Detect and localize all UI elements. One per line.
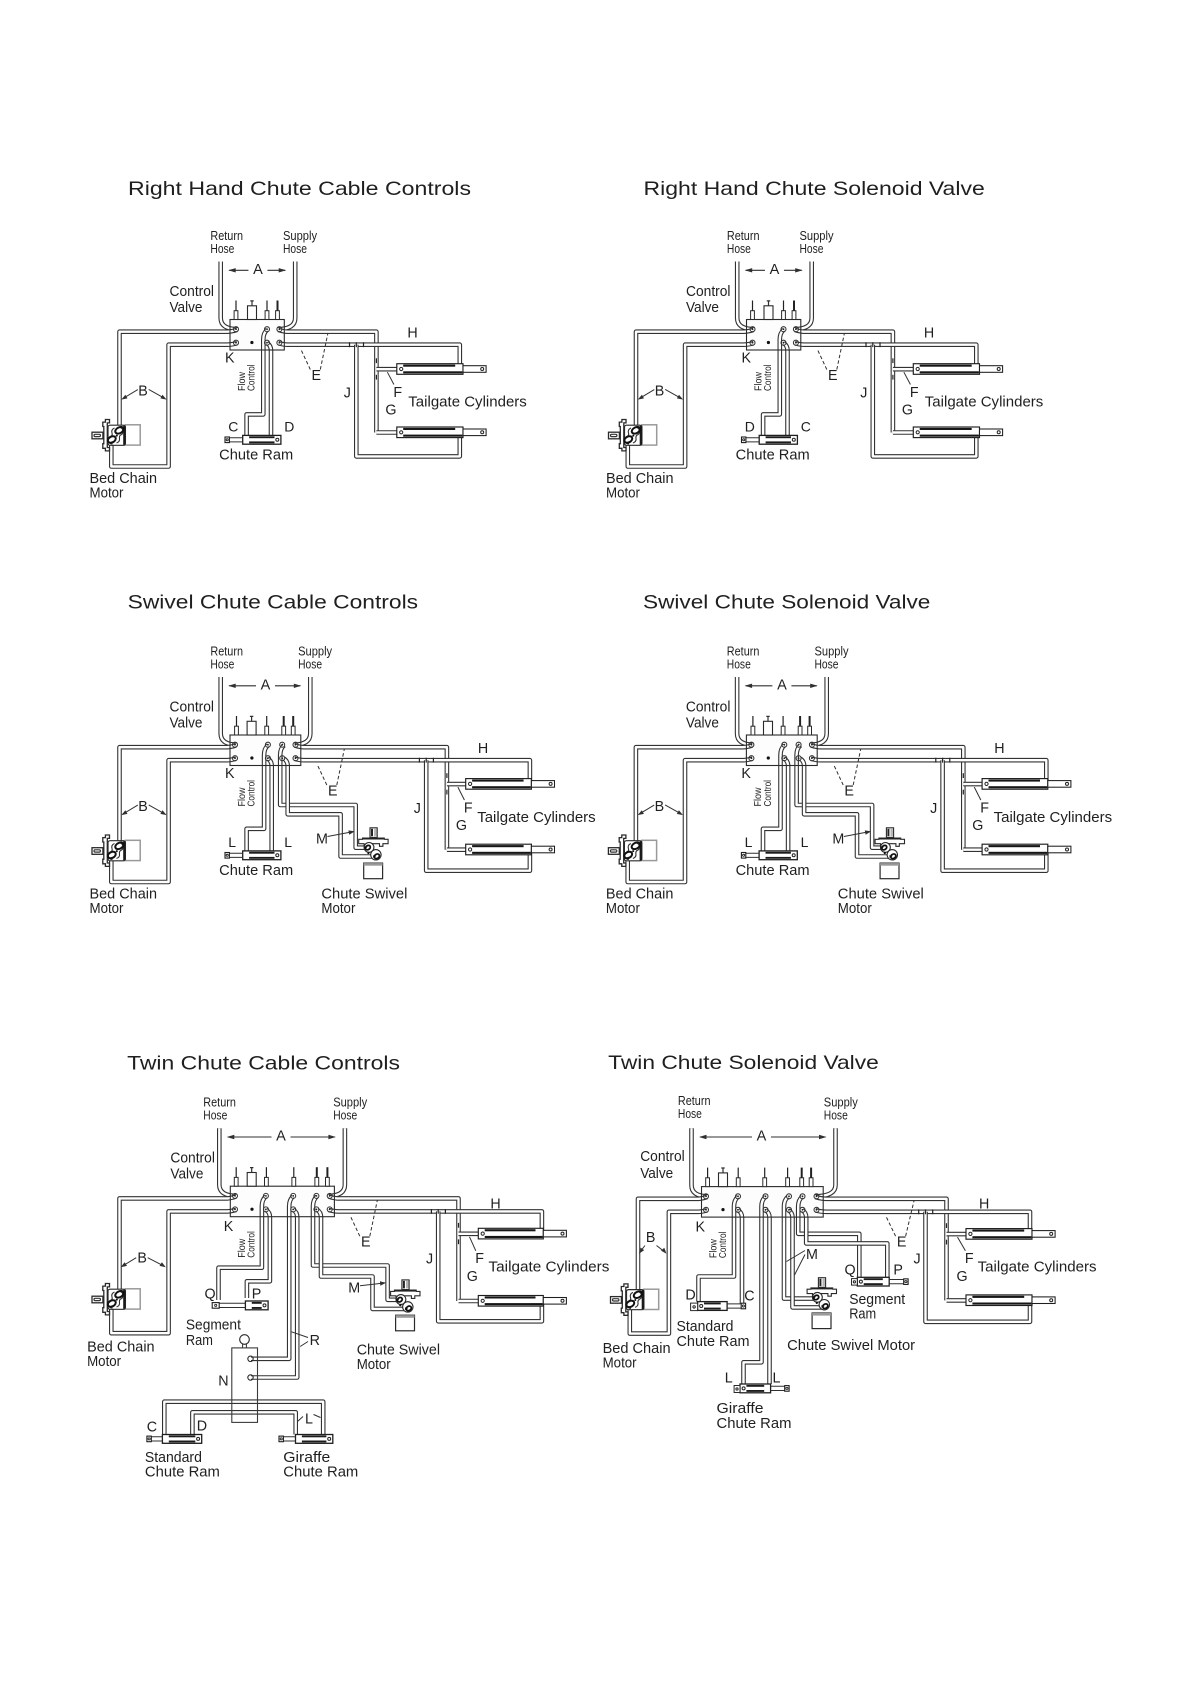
svg-text:J: J [930, 801, 937, 817]
supply hose [815, 1128, 836, 1196]
svg-text:C: C [147, 1419, 157, 1435]
hose M to swivel motor top [280, 745, 368, 848]
hose E to tailgate cylinder left ports [295, 745, 447, 849]
tailgate cylinder lower [982, 844, 1071, 855]
svg-text:L: L [284, 834, 292, 850]
hose to chute ram right port [268, 759, 272, 851]
svg-text:M: M [316, 832, 328, 848]
chute ram [741, 851, 797, 860]
svg-text:Tailgate Cylinders: Tailgate Cylinders [477, 809, 596, 826]
hose to giraffe ram left [744, 1197, 766, 1384]
svg-text:Tailgate Cylinders: Tailgate Cylinders [408, 394, 527, 411]
stub to G port [459, 1299, 479, 1304]
tailgate cylinder lower [913, 427, 1002, 438]
svg-text:A: A [276, 1129, 286, 1145]
svg-text:Motor: Motor [606, 486, 640, 502]
tailgate cylinder upper [466, 779, 555, 790]
ticks on F/G hose [375, 358, 377, 363]
hose J loop [926, 1212, 1031, 1322]
svg-text:Valve: Valve [170, 716, 203, 732]
svg-text:P: P [893, 1263, 903, 1279]
hose junction block to standard ram C [164, 1402, 323, 1435]
supply hose [277, 262, 295, 330]
hose to segment ram P [802, 1210, 887, 1277]
svg-text:G: G [902, 403, 913, 419]
chute ram [225, 435, 281, 444]
hose B return to bed chain motor [636, 330, 754, 432]
tailgate cylinder upper [397, 364, 486, 375]
svg-text:Hose: Hose [333, 1108, 357, 1123]
dimension A [228, 1136, 335, 1138]
svg-text:Chute Swivel Motor: Chute Swivel Motor [787, 1338, 915, 1354]
stub to G port [447, 847, 466, 852]
svg-text:Motor: Motor [606, 901, 640, 917]
svg-text:Twin Chute Solenoid Valve: Twin Chute Solenoid Valve [608, 1052, 879, 1074]
svg-text:Swivel Chute Solenoid Valve: Swivel Chute Solenoid Valve [643, 592, 930, 614]
svg-text:B: B [138, 799, 148, 815]
svg-text:Hose: Hose [298, 657, 322, 672]
svg-text:Tailgate Cylinders: Tailgate Cylinders [994, 809, 1113, 826]
hose M to swivel motor bottom [800, 759, 894, 857]
hose M to swivel motor top [784, 1197, 816, 1299]
hose to chute ram right port [267, 343, 271, 435]
svg-text:E: E [828, 368, 838, 384]
tailgate cylinder upper [982, 779, 1071, 790]
flow control dot [250, 341, 253, 344]
svg-text:B: B [137, 1250, 147, 1266]
svg-text:Motor: Motor [90, 486, 124, 502]
tailgate cylinder upper [913, 364, 1002, 375]
flow control dot [721, 1208, 724, 1211]
svg-text:Chute Ram: Chute Ram [219, 448, 293, 464]
bed chain motor [92, 835, 140, 866]
svg-text:H: H [979, 1197, 989, 1213]
hose E to tailgate cylinder left ports [795, 330, 893, 433]
bed chain motor [92, 420, 140, 451]
tailgate cylinder lower [478, 1296, 566, 1307]
svg-text:H: H [490, 1197, 500, 1213]
supply hose [810, 677, 827, 745]
hose B return to bed chain motor [120, 745, 237, 847]
svg-text:L: L [305, 1411, 313, 1427]
tailgate cylinder upper [478, 1228, 566, 1239]
svg-text:Hose: Hose [210, 241, 234, 256]
bed chain motor [92, 1284, 140, 1315]
tailgate cylinder lower [966, 1295, 1055, 1306]
svg-text:E: E [361, 1235, 371, 1251]
ticks on F/G hose [458, 1223, 460, 1228]
svg-text:Motor: Motor [603, 1356, 637, 1372]
svg-text:Hose: Hose [800, 241, 824, 256]
svg-text:Motor: Motor [838, 901, 872, 917]
dimension A [746, 269, 802, 271]
return hose [221, 262, 238, 330]
svg-text:Control: Control [686, 700, 731, 716]
hose to chute ram left port [763, 745, 784, 851]
svg-text:L: L [773, 1371, 781, 1387]
hose B supply loop to bed chain motor [111, 759, 236, 882]
hose E to tailgate cylinder right ports [816, 1210, 1031, 1234]
control valve block [747, 301, 801, 351]
svg-text:M: M [832, 832, 844, 848]
return hose [219, 1128, 237, 1196]
dimension A [229, 685, 300, 687]
svg-text:B: B [138, 384, 148, 400]
hose B supply loop to bed chain motor [111, 1210, 236, 1333]
svg-text:D: D [745, 419, 755, 435]
svg-text:Right Hand Chute Solenoid Valv: Right Hand Chute Solenoid Valve [644, 178, 985, 200]
junction ticks [431, 1209, 445, 1214]
return hose [737, 677, 753, 745]
svg-text:Chute Ram: Chute Ram [145, 1465, 220, 1481]
junction ticks [936, 758, 950, 763]
svg-text:H: H [994, 741, 1004, 757]
return hose [221, 677, 237, 745]
svg-text:Chute Ram: Chute Ram [736, 863, 810, 879]
hose M to swivel motor bottom [317, 1210, 410, 1309]
svg-text:Chute Ram: Chute Ram [677, 1334, 750, 1350]
svg-text:B: B [646, 1230, 656, 1246]
svg-text:Control: Control [686, 284, 731, 300]
hose B supply loop to bed chain motor [628, 343, 754, 466]
stub to F port [447, 782, 466, 787]
hose B supply loop to bed chain motor [630, 1210, 707, 1333]
hose E to tailgate cylinder left ports [811, 745, 963, 849]
segment ram [212, 1301, 268, 1310]
svg-text:L: L [228, 834, 236, 850]
hose to chute ram left port [247, 330, 268, 436]
hose to standard ram D [699, 1197, 738, 1302]
stub to F port [459, 1232, 479, 1237]
svg-text:E: E [328, 784, 338, 800]
dimension A [746, 685, 817, 687]
svg-text:D: D [284, 419, 294, 435]
junction ticks [919, 1209, 933, 1214]
control valve block [230, 1167, 334, 1217]
hose M to swivel motor top [313, 1196, 400, 1299]
hose J loop [943, 760, 1047, 871]
hose E to tailgate cylinder right ports [295, 759, 530, 785]
svg-text:Motor: Motor [321, 901, 355, 917]
segment ram [857, 1277, 908, 1286]
hose to giraffe ram right [766, 1210, 770, 1384]
ticks on F/G hose [892, 358, 894, 363]
hose E to tailgate cylinder right ports [795, 343, 976, 369]
svg-text:Hose: Hose [727, 241, 751, 256]
hose R to junction block top [251, 1196, 293, 1358]
hose E to tailgate cylinder right ports [278, 343, 459, 369]
junction ticks [350, 342, 364, 347]
svg-text:Hose: Hose [727, 657, 751, 672]
svg-text:Swivel Chute Cable Controls: Swivel Chute Cable Controls [128, 592, 419, 614]
control valve block [230, 301, 284, 351]
supply hose [328, 1128, 345, 1196]
svg-text:Hose: Hose [203, 1108, 227, 1123]
dimension A [700, 1136, 826, 1138]
svg-text:Giraffe: Giraffe [717, 1401, 764, 1417]
hose J loop [438, 1211, 542, 1321]
ticks on F/G hose [946, 1223, 948, 1228]
svg-text:Hose: Hose [283, 241, 307, 256]
hose junction block to giraffe ram [192, 1412, 295, 1434]
hose to chute ram left port [247, 745, 268, 851]
svg-text:B: B [655, 384, 665, 400]
junction ticks [866, 342, 880, 347]
return hose [692, 1128, 709, 1196]
svg-text:Valve: Valve [640, 1166, 673, 1182]
hose E to tailgate cylinder right ports [811, 759, 1046, 785]
control valve block [746, 716, 817, 766]
chute ram [742, 435, 798, 444]
stub to F port [893, 367, 913, 372]
bed chain motor [608, 835, 656, 866]
hose to segment ram Q [798, 1197, 859, 1278]
hose J loop [356, 345, 460, 457]
hose R to junction block bottom [251, 1210, 297, 1378]
svg-text:F: F [965, 1251, 974, 1267]
hose B return to bed chain motor [638, 1197, 707, 1296]
hose B return to bed chain motor [636, 745, 753, 847]
standard chute ram [698, 1302, 746, 1311]
svg-text:K: K [224, 1219, 234, 1235]
svg-text:J: J [860, 386, 867, 402]
svg-text:Control: Control [170, 1151, 215, 1167]
svg-text:F: F [393, 385, 402, 401]
svg-text:Valve: Valve [686, 716, 719, 732]
standard ram left block [691, 1303, 698, 1311]
stub to G port [947, 1298, 967, 1303]
stub to F port [376, 367, 396, 372]
hose B return to bed chain motor [120, 1197, 237, 1296]
hose to standard ram C [738, 1210, 742, 1303]
svg-text:Valve: Valve [170, 300, 203, 316]
flow control dot [767, 341, 770, 344]
svg-text:Tailgate Cylinders: Tailgate Cylinders [489, 1259, 610, 1276]
svg-text:K: K [742, 350, 752, 366]
svg-text:L: L [745, 834, 753, 850]
hose J loop [873, 345, 977, 457]
svg-text:F: F [910, 385, 919, 401]
stub to G port [376, 430, 396, 435]
svg-text:Control: Control [640, 1149, 685, 1165]
flow control dot [250, 1208, 253, 1211]
svg-text:H: H [924, 326, 934, 342]
stub to F port [963, 782, 982, 787]
svg-text:Right Hand Chute Cable Control: Right Hand Chute Cable Controls [128, 178, 471, 200]
svg-text:Tailgate Cylinders: Tailgate Cylinders [925, 394, 1044, 411]
dimension A [229, 269, 285, 271]
svg-text:G: G [456, 818, 467, 834]
svg-text:Twin Chute Cable Controls: Twin Chute Cable Controls [127, 1053, 400, 1075]
tailgate cylinder lower [397, 427, 486, 438]
svg-text:M: M [806, 1247, 818, 1263]
hose to segment ram P [247, 1210, 270, 1298]
supply hose [794, 262, 812, 330]
chute swivel motor [807, 1278, 836, 1329]
svg-text:P: P [252, 1287, 262, 1303]
standard chute ram [147, 1435, 202, 1444]
hose to chute ram right port [784, 343, 788, 435]
hose to segment ram Q [219, 1196, 266, 1300]
svg-text:K: K [225, 766, 235, 782]
svg-text:Tailgate Cylinders: Tailgate Cylinders [978, 1259, 1097, 1276]
bed chain motor [609, 420, 657, 451]
svg-text:B: B [655, 799, 665, 815]
svg-text:Segment: Segment [849, 1292, 905, 1308]
hose E to tailgate cylinder right ports [329, 1210, 542, 1234]
stub to G port [893, 430, 913, 435]
control valve block [230, 716, 301, 766]
svg-text:A: A [777, 677, 787, 693]
svg-text:F: F [475, 1251, 484, 1267]
svg-text:Control: Control [170, 700, 215, 716]
svg-text:E: E [897, 1235, 907, 1251]
svg-text:H: H [478, 741, 488, 757]
svg-text:D: D [197, 1418, 207, 1434]
stub to G port [963, 847, 982, 852]
svg-text:K: K [741, 766, 751, 782]
svg-text:Hose: Hose [824, 1108, 848, 1123]
hose E to tailgate cylinder left ports [278, 330, 376, 433]
svg-text:J: J [914, 1252, 921, 1268]
svg-text:C: C [228, 419, 238, 435]
svg-text:L: L [801, 834, 809, 850]
svg-text:Segment: Segment [186, 1318, 241, 1334]
svg-text:Motor: Motor [87, 1354, 121, 1370]
giraffe ram left block [734, 1386, 740, 1393]
bed chain motor [611, 1284, 659, 1315]
svg-text:E: E [312, 368, 322, 384]
tailgate cylinder upper [966, 1229, 1055, 1240]
svg-text:Q: Q [845, 1263, 856, 1279]
svg-text:Q: Q [205, 1287, 216, 1303]
hose to chute ram left port [763, 330, 784, 436]
giraffe chute ram [279, 1435, 333, 1444]
hose to chute ram right port [784, 759, 788, 851]
svg-text:D: D [685, 1287, 695, 1303]
hose E to tailgate cylinder left ports [816, 1197, 947, 1300]
hose J loop [426, 760, 530, 871]
svg-text:G: G [957, 1269, 968, 1285]
svg-text:C: C [744, 1288, 754, 1304]
svg-text:K: K [696, 1219, 706, 1235]
svg-text:N: N [218, 1374, 228, 1390]
svg-text:Valve: Valve [686, 300, 719, 316]
svg-text:J: J [344, 386, 351, 402]
junction block N [232, 1335, 258, 1423]
svg-text:C: C [801, 419, 811, 435]
svg-text:Chute Ram: Chute Ram [717, 1416, 792, 1432]
svg-text:Ram: Ram [186, 1333, 213, 1349]
svg-text:H: H [407, 326, 417, 342]
chute swivel motor [391, 1280, 420, 1331]
svg-text:Hose: Hose [678, 1106, 702, 1121]
tailgate cylinder lower [466, 844, 555, 855]
hose M to swivel motor top [797, 745, 885, 848]
giraffe chute ram [740, 1384, 789, 1393]
return hose [737, 262, 754, 330]
chute swivel motor [875, 828, 904, 879]
svg-text:R: R [310, 1333, 320, 1349]
svg-text:G: G [385, 403, 396, 419]
hose E to tailgate cylinder left ports [329, 1197, 459, 1301]
svg-text:Chute Ram: Chute Ram [736, 448, 810, 464]
svg-text:F: F [464, 800, 473, 816]
stub to F port [947, 1232, 967, 1237]
svg-text:K: K [225, 350, 235, 366]
svg-text:Chute Ram: Chute Ram [219, 863, 293, 879]
svg-text:A: A [757, 1129, 767, 1145]
control valve block [702, 1168, 824, 1218]
chute swivel motor [359, 828, 388, 879]
svg-text:Motor: Motor [357, 1357, 391, 1373]
svg-text:A: A [261, 677, 271, 693]
hose M to swivel motor bottom [284, 759, 378, 857]
svg-text:Standard: Standard [677, 1319, 734, 1335]
hose B return to bed chain motor [120, 330, 238, 432]
flow control dot [767, 756, 770, 759]
svg-text:Valve: Valve [170, 1167, 203, 1183]
svg-text:A: A [770, 262, 780, 278]
svg-text:Chute Ram: Chute Ram [283, 1465, 358, 1481]
chute ram [225, 851, 281, 860]
ticks on F/G hose [446, 773, 448, 778]
svg-text:Motor: Motor [90, 901, 124, 917]
svg-text:Hose: Hose [815, 657, 839, 672]
svg-text:Control: Control [170, 284, 215, 300]
svg-text:F: F [980, 800, 989, 816]
svg-text:A: A [253, 262, 263, 278]
hose B supply loop to bed chain motor [628, 759, 753, 882]
svg-text:E: E [844, 784, 854, 800]
segment ram left block [852, 1279, 858, 1286]
svg-text:Hose: Hose [210, 657, 234, 672]
supply hose [294, 677, 311, 745]
svg-text:L: L [725, 1371, 733, 1387]
hose M to swivel motor bottom [789, 1210, 826, 1307]
svg-text:M: M [348, 1281, 360, 1297]
svg-text:G: G [972, 818, 983, 834]
svg-text:Ram: Ram [849, 1307, 876, 1323]
svg-text:J: J [426, 1252, 433, 1268]
svg-text:J: J [414, 801, 421, 817]
svg-text:G: G [467, 1269, 478, 1285]
flow control dot [250, 756, 253, 759]
hose B supply loop to bed chain motor [111, 343, 237, 466]
ticks on F/G hose [962, 773, 964, 778]
junction ticks [419, 758, 433, 763]
